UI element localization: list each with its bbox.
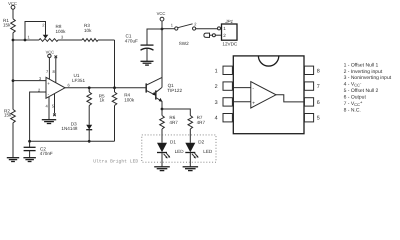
power VCC symbol (top-left)	[8, 1, 17, 19]
resistor R4 100k	[112, 92, 135, 105]
svg-text:LED: LED	[203, 149, 213, 154]
connector P1 pin2 stub plug	[204, 33, 222, 37]
svg-text:2 - Inverting input: 2 - Inverting input	[344, 69, 383, 75]
resistor R6 4R7	[160, 115, 179, 129]
svg-text:LF351: LF351	[72, 78, 85, 83]
ground (op-amp pin 4)	[42, 120, 56, 124]
wire bottom feedback rail	[30, 140, 115, 142]
wire DIP op-amp output to pin 6	[276, 95, 304, 102]
wire right column down to output row	[114, 40, 116, 88]
svg-text:SW2: SW2	[179, 41, 189, 46]
svg-text:2: 2	[223, 33, 226, 38]
svg-text:D2: D2	[198, 140, 204, 145]
ground (C1)	[141, 61, 154, 65]
svg-text:8: 8	[317, 68, 320, 74]
svg-text:15k: 15k	[3, 23, 11, 28]
svg-text:470nF: 470nF	[40, 151, 53, 156]
wire to R6	[161, 109, 163, 116]
svg-text:+: +	[252, 100, 255, 106]
svg-text:1 - Offset Null 1: 1 - Offset Null 1	[344, 62, 379, 68]
wire D2 to ground	[189, 153, 191, 167]
svg-text:4R7: 4R7	[197, 120, 206, 125]
node junction pin3 tap	[12, 79, 15, 82]
wire pot to R3	[58, 39, 82, 41]
transistor Q1 TIP122 (darlington)	[146, 77, 162, 101]
svg-text:1N4148: 1N4148	[61, 126, 78, 131]
ground (D2)	[183, 167, 199, 171]
svg-text:TIP122: TIP122	[167, 88, 182, 93]
wire output pin 6 row	[65, 87, 146, 89]
wire R4 branch	[114, 88, 116, 92]
capacitor C2 470nF	[24, 141, 53, 157]
node junction pot loop	[24, 39, 27, 42]
power VCC symbol (op-amp pin 7)	[46, 49, 55, 79]
svg-text:1: 1	[215, 68, 218, 74]
DIP pin 3	[215, 98, 234, 106]
wire VCC rail down to Q1 collector	[161, 29, 163, 87]
wire D1 to ground	[161, 153, 163, 167]
switch SW2	[171, 21, 198, 46]
svg-text:+: +	[47, 81, 50, 86]
DIP internal op-amp symbol	[251, 82, 276, 108]
ground (D1)	[154, 167, 170, 171]
node junction R4 top	[113, 86, 116, 89]
DIP pin 7	[304, 82, 319, 90]
DIP pin 4	[215, 114, 234, 122]
wire DIP pin3 to op-amp	[233, 101, 251, 103]
wire R5 branch top	[88, 88, 90, 92]
wire branch split to R7	[162, 109, 190, 116]
node junction D3 bottom	[88, 140, 91, 143]
svg-text:3 - Noninverting input: 3 - Noninverting input	[344, 75, 392, 81]
Q1b emitter arrow	[159, 98, 163, 102]
DIP notch	[258, 56, 278, 66]
LED D1	[157, 140, 184, 159]
connector P1 12VDC	[218, 19, 238, 47]
dotted enclosure ultra bright LED box	[142, 135, 216, 162]
svg-text:15k: 15k	[4, 112, 12, 117]
resistor R3 10k	[82, 23, 98, 41]
Q1a emitter arrow	[152, 92, 156, 96]
potentiometer R8 100k	[39, 24, 66, 41]
node junction C2 top	[28, 140, 31, 143]
wire SW2 to P1	[196, 28, 218, 30]
node junction R1 bottom	[12, 39, 15, 42]
wire R5 to D3	[88, 106, 90, 125]
wire pin 3 noninverting input	[13, 80, 46, 82]
svg-text:4: 4	[215, 116, 218, 122]
pinout description text	[344, 62, 392, 113]
svg-text:VCC: VCC	[157, 11, 166, 16]
wire VCC junction to SW2	[162, 28, 175, 30]
capacitor C1 470uF (polarized)	[125, 34, 154, 62]
svg-text:4 - VCC-: 4 - VCC-	[344, 80, 362, 87]
ground (C2)	[23, 158, 36, 162]
svg-text:100k: 100k	[56, 29, 67, 34]
node junction R5 top	[88, 86, 91, 89]
svg-text:470uF: 470uF	[125, 38, 138, 43]
wire VCC to C1	[147, 29, 162, 45]
DIP pin 1	[215, 66, 234, 74]
svg-text:JP1: JP1	[224, 19, 233, 24]
svg-text:2: 2	[215, 84, 218, 90]
node junction LED branches	[161, 108, 164, 111]
wire node to pot	[13, 39, 39, 41]
IC DIP-8 package outline	[233, 56, 304, 134]
svg-text:Ultra Bright LED: Ultra Bright LED	[93, 159, 138, 165]
pot wiper loop wire	[25, 22, 46, 41]
op-amp pin 5 N.C. x mark	[53, 94, 56, 117]
svg-text:VCC: VCC	[46, 49, 55, 54]
ground (left column)	[7, 158, 19, 162]
op-amp U1 LF351 triangle	[46, 77, 65, 98]
DIP pin 5	[304, 114, 319, 122]
svg-text:3: 3	[215, 100, 218, 106]
diode D3 1N4148	[61, 121, 92, 141]
DIP pin 8	[304, 66, 319, 74]
LED D2	[185, 140, 213, 159]
svg-text:LED: LED	[175, 149, 185, 154]
wire Q1 emitter down	[161, 101, 163, 109]
svg-text:12VDC: 12VDC	[222, 42, 237, 47]
op-amp pin 8 N.C. x mark	[55, 56, 58, 83]
wire op-amp pin 4 to ground	[48, 97, 50, 120]
svg-text:D1: D1	[170, 140, 176, 145]
wire R6 to D1	[161, 129, 163, 143]
resistor R5 1k	[87, 92, 105, 105]
wire R2 to ground	[12, 123, 14, 158]
node junction VCC rail	[161, 28, 164, 31]
svg-text:10k: 10k	[84, 28, 92, 33]
svg-text:6: 6	[317, 100, 320, 106]
svg-text:5: 5	[317, 116, 320, 122]
wire R3 to right column	[98, 39, 115, 41]
wire R4 to bottom rail	[114, 106, 116, 142]
svg-text:4R7: 4R7	[169, 120, 178, 125]
wire pin 2 inverting input	[30, 92, 46, 141]
svg-text:Q1: Q1	[168, 83, 175, 88]
resistor R7 4R7	[188, 115, 205, 129]
wire R7 to D2	[189, 129, 191, 143]
resistor R2 15k	[4, 109, 15, 123]
DIP pin 2	[215, 82, 234, 90]
svg-text:1: 1	[223, 26, 226, 31]
svg-text:1k: 1k	[100, 98, 106, 103]
pot wiper arrow	[43, 35, 49, 39]
svg-text:8 - N.C.: 8 - N.C.	[344, 107, 361, 113]
DIP pin 6	[304, 98, 319, 106]
svg-text:5 - Offset Null 2: 5 - Offset Null 2	[344, 88, 379, 94]
power VCC symbol (top middle)	[157, 11, 166, 29]
wire left column R1 to R2	[12, 33, 14, 110]
svg-text:100k: 100k	[124, 98, 135, 103]
svg-text:7: 7	[317, 84, 320, 90]
svg-text:6 - Output: 6 - Output	[344, 95, 367, 101]
resistor R1 15k	[3, 18, 15, 33]
wire DIP pin2 to op-amp	[233, 87, 251, 89]
